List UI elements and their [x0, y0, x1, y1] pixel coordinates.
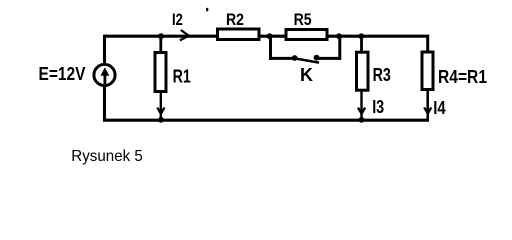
svg-text:R2: R2: [226, 10, 244, 29]
wire bottom horizontal bus: [103, 119, 429, 122]
resistor R5: [286, 30, 327, 40]
wire source top lead: [103, 35, 106, 65]
resistor R3: [357, 52, 369, 90]
wire R3 bottom lead with current arrow: [358, 90, 365, 118]
resistor R4: [422, 52, 433, 90]
node junction dot switch-branch left: [267, 33, 273, 39]
svg-text:E=12V: E=12V: [39, 64, 86, 84]
switch K contact left dot: [292, 55, 298, 61]
wire switch branch bottom left: [269, 57, 295, 60]
wire switch branch left vertical: [269, 36, 272, 60]
node junction dot switch-branch right: [336, 33, 342, 39]
svg-text:R4=R1: R4=R1: [438, 67, 487, 87]
switch K contact right dot: [314, 55, 320, 61]
wire R3 top lead: [360, 36, 363, 52]
stray mark: [206, 8, 208, 12]
wire top horizontal bus: [103, 35, 429, 38]
node junction dot R1 top: [158, 33, 164, 39]
svg-text:I2: I2: [172, 10, 183, 29]
source E=12V (circle with up arrow): [94, 64, 115, 85]
switch K blade (open): [295, 58, 319, 62]
wire switch branch right vertical: [338, 36, 341, 60]
svg-text:R1: R1: [173, 67, 191, 87]
resistor R2: [218, 29, 260, 40]
svg-text:K: K: [300, 65, 313, 85]
wire R1 bottom lead with current arrow: [157, 92, 164, 119]
svg-text:R5: R5: [294, 10, 312, 29]
node junction dot R3 bottom: [359, 117, 365, 123]
svg-text:Rysunek 5: Rysunek 5: [71, 148, 143, 165]
wire switch branch bottom right: [317, 57, 342, 60]
resistor R1: [155, 53, 166, 92]
node junction dot R1 bottom: [158, 117, 164, 123]
wire R1 top lead: [159, 36, 162, 52]
wire R4 bottom lead with current arrow: [424, 90, 431, 122]
node junction dot R3 top: [358, 33, 364, 39]
wire R4 top lead (right corner): [426, 35, 429, 52]
wire source bottom lead: [103, 86, 106, 122]
svg-text:R3: R3: [373, 65, 391, 85]
current arrow I2 on top wire: [180, 30, 189, 40]
svg-text:I3: I3: [372, 97, 384, 117]
svg-text:I4: I4: [433, 98, 445, 118]
